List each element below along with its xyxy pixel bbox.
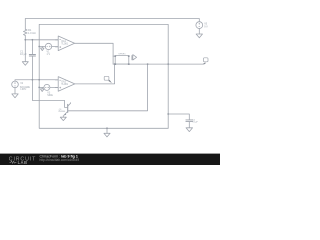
wire speaker line to flag — [113, 63, 204, 65]
voltage source V3 — [44, 84, 50, 90]
svg-text:LAB: LAB — [18, 160, 28, 165]
op-amp OA1 — [55, 36, 74, 51]
svg-text:SPKR1: SPKR1 — [118, 53, 126, 55]
wire V1 right to op-amp1 plus — [52, 46, 59, 48]
node speaker line x147 — [147, 63, 149, 65]
wire C2 branch — [168, 114, 189, 120]
voltage source V5 — [196, 22, 203, 29]
ground on bottom wire — [104, 133, 110, 137]
voltage source V1 — [45, 43, 51, 49]
node op-amp2 riser tap — [114, 63, 116, 65]
resistor R1 — [24, 29, 28, 35]
junction dots — [24, 39, 169, 129]
ground small at V1 — [41, 47, 45, 51]
wire top rail 1 — [25, 19, 199, 30]
node R1 bottom — [24, 39, 26, 41]
wire top rail 2 — [39, 24, 168, 128]
svg-text:1 V: 1 V — [47, 53, 51, 56]
wire V3 right to op-amp2 plus — [50, 86, 58, 88]
wire V2 bottom stub — [14, 88, 16, 94]
svg-text:SINE: SINE — [47, 94, 53, 97]
node rail1 crossing C1 — [32, 79, 34, 81]
wire node rail op-amp1 inverting — [25, 39, 58, 41]
footer bar — [0, 154, 220, 165]
ground under V2 — [12, 94, 18, 98]
svg-text:10 µF: 10 µF — [20, 52, 27, 56]
svg-text:TL081: TL081 — [61, 83, 68, 86]
transistor Q1 emitter arrow — [64, 113, 66, 115]
ground small at V3 — [40, 87, 44, 91]
wire V3 left — [39, 86, 44, 88]
wire R1 bottom to ground — [24, 36, 26, 62]
svg-text:TL081: TL081 — [61, 43, 68, 46]
svg-text:1 kHz: 1 kHz — [20, 88, 27, 91]
ground under Q1 emitter — [60, 116, 66, 121]
wire V1 left — [39, 46, 45, 48]
source polarity marks — [14, 23, 200, 88]
wire op-amp1 output — [75, 43, 114, 64]
flag node label right — [203, 58, 208, 64]
wire V5 bottom stub — [198, 29, 200, 35]
wire base wire to Q1 — [32, 100, 67, 107]
svg-text:2N3904: 2N3904 — [58, 111, 66, 113]
speaker cone — [132, 55, 137, 60]
wire long left vertical lower — [39, 47, 168, 129]
node C1 top — [32, 39, 34, 41]
node V3 tap — [38, 87, 40, 89]
svg-text:0.1µF: 0.1µF — [193, 122, 199, 124]
wire C1 column — [31, 40, 33, 101]
svg-text:http://circuitlab.com/c4r8x49: http://circuitlab.com/c4r8x49 — [40, 158, 80, 162]
ground under V5 — [196, 34, 202, 38]
op-amp OA2 — [55, 77, 75, 92]
node bottom ground — [106, 127, 108, 129]
node V1 tap — [38, 46, 40, 48]
wire C2 to ground — [188, 122, 190, 128]
capacitor C2 — [186, 120, 193, 122]
node rail1 crossing long vertical — [38, 79, 40, 81]
wire Q1 emitter to speaker line — [68, 64, 148, 111]
node speaker line x168 — [167, 63, 169, 65]
ground under C2 — [186, 128, 193, 132]
speaker pin squares — [114, 55, 129, 65]
wire op-amp2 output — [75, 64, 115, 84]
wire op-amp2 inverting rail — [15, 80, 58, 81]
svg-text:9 V: 9 V — [204, 25, 208, 28]
ground under R1 — [22, 62, 28, 66]
capacitor C1 — [29, 55, 35, 57]
speaker SPKR1 box — [115, 56, 129, 65]
op-amp input signs — [59, 40, 61, 89]
node C2 branch — [167, 113, 169, 115]
transistor Q1 — [67, 104, 69, 112]
flag node label op-amp2 output — [104, 76, 112, 83]
voltage source V2 — [12, 81, 19, 88]
wire speaker top-left pin stub — [113, 55, 115, 57]
wire bottom ground stub — [106, 128, 108, 133]
svg-text:1.0 kΩ: 1.0 kΩ — [28, 31, 36, 35]
